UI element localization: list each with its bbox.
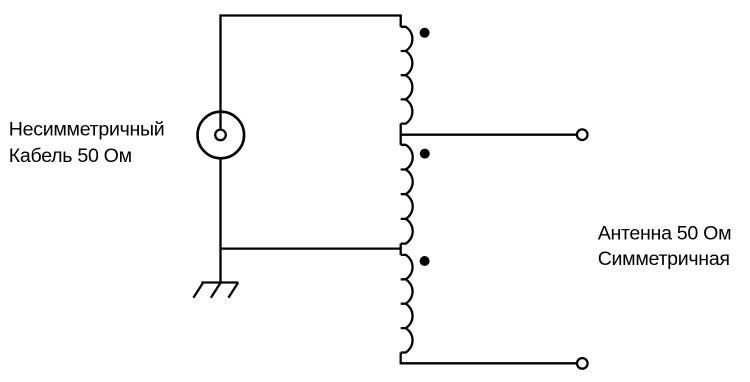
wire top run: connector pin to transformer top: [221, 16, 401, 131]
label: Антенна 50 Ом Симметричная: [598, 223, 732, 271]
svg-text:Кабель 50 Ом: Кабель 50 Ом: [9, 145, 132, 167]
wire L2 to L3 through lower junction: [400, 244, 402, 255]
wire L1 to L2 through centre tap: [400, 124, 402, 145]
wire connector ground side down: [219, 158, 221, 282]
connector J1 centre pin: [215, 130, 226, 141]
svg-text:Симметричная: Симметричная: [598, 248, 730, 270]
terminal lower (antenna): [577, 358, 588, 369]
winding L2 (middle): [401, 145, 413, 244]
ground: [193, 283, 238, 298]
phase dot L1: [420, 28, 430, 38]
phase dot L2: [420, 149, 430, 159]
phase dot L3: [420, 256, 430, 266]
wire bottom run to right terminal: [401, 353, 577, 364]
svg-text:Антенна 50 Ом: Антенна 50 Ом: [598, 223, 732, 245]
wire lower horizontal to winding junction: [221, 247, 401, 249]
svg-text:Несимметричный: Несимметричный: [9, 118, 165, 140]
wire centre tap to right terminal: [401, 134, 577, 136]
terminal upper (antenna): [577, 129, 588, 140]
winding L3 (bottom): [401, 255, 413, 353]
label: Несимметричный Кабель 50 Ом: [9, 118, 165, 167]
connector J1 outer circle (coax): [198, 112, 245, 159]
winding L1 (top): [401, 27, 413, 124]
